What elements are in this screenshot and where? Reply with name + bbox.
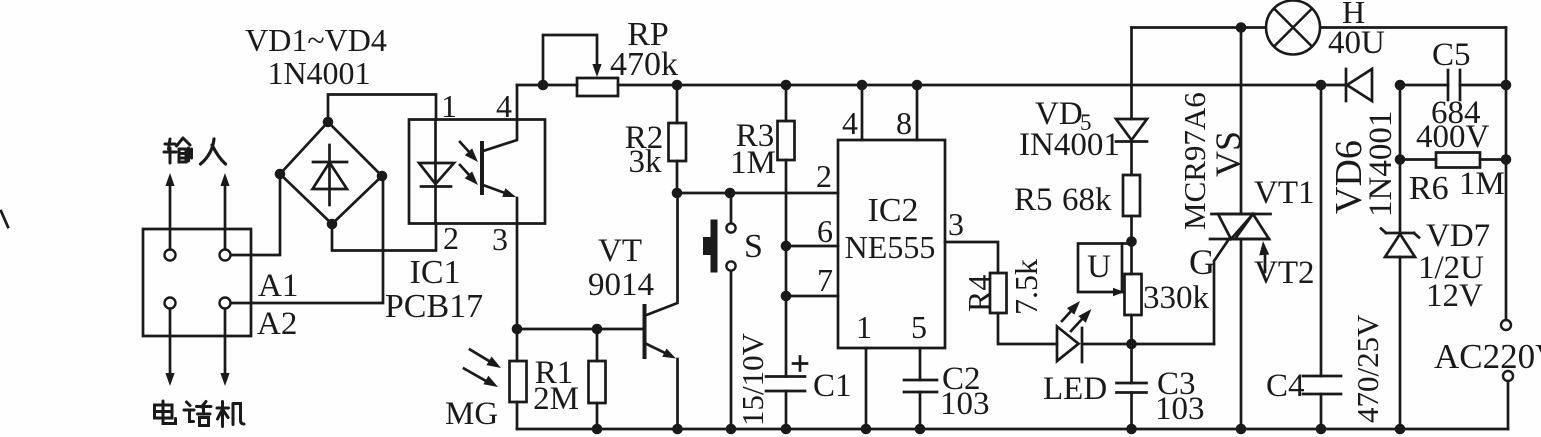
svg-text:G: G: [1189, 242, 1215, 282]
svg-text:VS: VS: [1208, 131, 1248, 177]
svg-text:U: U: [1087, 249, 1111, 285]
svg-text:330k: 330k: [1143, 280, 1210, 316]
svg-text:IC1: IC1: [410, 254, 461, 291]
svg-text:PCB17: PCB17: [385, 288, 483, 325]
svg-text:S: S: [744, 228, 763, 265]
svg-text:400V: 400V: [1416, 119, 1490, 155]
svg-text:15/10V: 15/10V: [735, 332, 770, 426]
svg-text:470k: 470k: [610, 46, 678, 83]
svg-text:1M: 1M: [1459, 166, 1505, 202]
svg-text:68k: 68k: [1062, 182, 1112, 218]
svg-text:2: 2: [816, 158, 832, 194]
svg-text:LED: LED: [1043, 371, 1107, 407]
svg-text:4: 4: [496, 88, 512, 124]
svg-text:1N4001: 1N4001: [267, 55, 370, 91]
svg-text:VD7: VD7: [1426, 218, 1490, 254]
svg-text:NE555: NE555: [845, 229, 936, 265]
svg-text:1: 1: [856, 309, 872, 345]
svg-text:470/25V: 470/25V: [1350, 314, 1385, 423]
svg-text:1M: 1M: [730, 145, 776, 181]
svg-text:103: 103: [1155, 391, 1205, 427]
svg-text:2: 2: [443, 220, 459, 256]
svg-text:8: 8: [896, 105, 912, 141]
svg-text:MG: MG: [445, 396, 498, 432]
svg-text:A1: A1: [258, 268, 298, 304]
svg-text:VT2: VT2: [1254, 255, 1315, 291]
svg-text:A2: A2: [257, 306, 297, 342]
svg-text:4: 4: [842, 105, 858, 141]
svg-text:9014: 9014: [588, 267, 654, 303]
svg-text:40U: 40U: [1328, 25, 1385, 61]
svg-text:1: 1: [441, 88, 457, 124]
svg-text:103: 103: [940, 386, 990, 422]
svg-text:3: 3: [492, 221, 508, 257]
svg-text:C1: C1: [813, 368, 852, 404]
svg-text:C4: C4: [1266, 368, 1305, 404]
svg-text:VD1~VD4: VD1~VD4: [245, 22, 387, 58]
svg-text:VT: VT: [598, 233, 642, 269]
svg-text:3: 3: [948, 206, 964, 242]
svg-text:R4: R4: [961, 275, 997, 312]
svg-text:7.5k: 7.5k: [1008, 259, 1044, 315]
svg-text:3k: 3k: [629, 144, 663, 180]
svg-text:R6: R6: [1409, 170, 1449, 207]
svg-text:R5: R5: [1014, 182, 1053, 218]
svg-text:6: 6: [817, 213, 833, 249]
svg-text:7: 7: [817, 262, 833, 298]
svg-text:IN4001: IN4001: [1019, 127, 1120, 163]
svg-text:IC2: IC2: [868, 192, 919, 229]
svg-text:1N4001: 1N4001: [1363, 111, 1399, 217]
svg-text:12V: 12V: [1426, 278, 1483, 314]
svg-text:AC220V: AC220V: [1434, 337, 1541, 376]
svg-text:2M: 2M: [533, 381, 579, 417]
svg-text:C5: C5: [1432, 37, 1471, 73]
svg-text:5: 5: [911, 309, 927, 345]
svg-text:MCR97A6: MCR97A6: [1177, 92, 1212, 230]
svg-text:VT1: VT1: [1254, 175, 1315, 211]
